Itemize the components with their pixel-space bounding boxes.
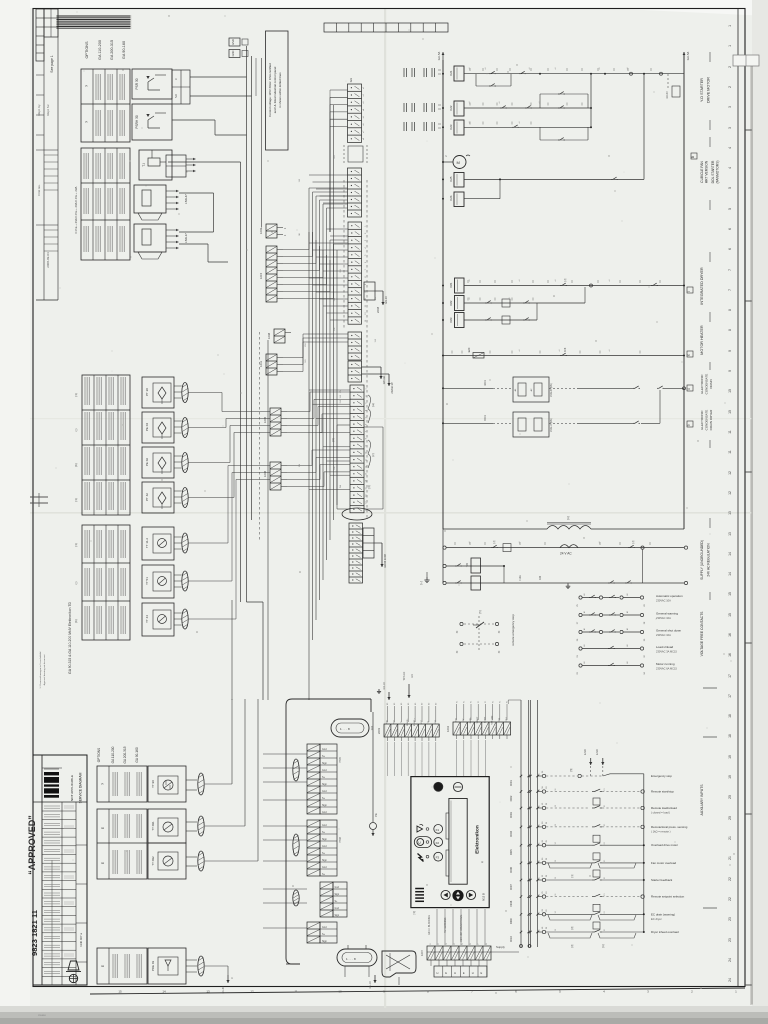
svg-text:[J]: [J] [632,540,635,543]
CT symbols drive motor feeders [403,68,405,77]
svg-text:GU-5A: GU-5A [686,52,690,61]
svg-text:I: I [687,291,691,292]
svg-text:K22: K22 [449,105,453,110]
svg-text:Elektronikon: Elektronikon [475,825,480,854]
wire gnd bus down 2 [251,56,253,520]
2X03 pin risers and labels [387,706,389,722]
svg-text:2X0: 2X0 [334,298,336,301]
svg-text:23: 23 [728,938,732,942]
svg-text:2D/GD W: 2D/GD W [390,382,394,394]
svg-text:K0: K0 [429,703,431,705]
svg-text:DRAIN: DRAIN [709,379,713,388]
left terminal strip group 7P05 [307,744,320,814]
pressure transducer PE 04 box [142,412,174,443]
svg-text:17: 17 [728,694,732,698]
svg-text:L5AL47: L5AL47 [184,194,188,204]
svg-text:GU-5A: GU-5A [437,52,441,61]
svg-text:F10E: F10E [519,575,522,581]
svg-text:[x]: [x] [566,516,570,519]
dryer contactor row A [442,285,444,287]
svg-text:3: 3 [728,106,732,108]
svg-text:a1: a1 [599,68,601,70]
cable oval PT 20 [182,383,188,403]
svg-text:14: 14 [366,480,368,482]
svg-text:a1: a1 [599,542,601,544]
svg-text:5: 5 [366,417,368,418]
wire strip E arrows right [362,366,382,368]
svg-text:5: 5 [728,208,732,210]
1X02 pin risers and labels [456,704,458,720]
contactor K25 row [442,178,444,180]
paper fold crease horizontal [30,512,752,514]
oval cable marker below strip F [342,508,372,520]
svg-text:ELECTRONIC: ELECTRONIC [700,410,704,430]
aux overload loop DI10 a [548,933,592,938]
svg-text:E: E [101,965,105,967]
atlas copco logo [44,772,59,775]
contactor K22 row [442,107,444,109]
arrow WH-GD above 1X02 [408,684,410,698]
24V regulation row 1 [443,564,446,567]
fold mark left margin [30,496,48,498]
svg-text:Sign: Sign [335,915,340,917]
svg-text:L5AL17: L5AL17 [184,233,188,243]
svg-text:a1: a1 [485,68,487,70]
svg-text:( closed = load ): ( closed = load ) [651,811,670,815]
svg-text:PE 02: PE 02 [145,458,149,467]
svg-text:A2: A2 [626,611,629,613]
power section left rail [442,60,444,529]
svg-text:A2: A2 [626,628,629,630]
power row label ticks row2 [469,103,471,106]
terminal GND lower [229,50,240,58]
svg-text:U. Kennzeichnungen im Umschalt: U. Kennzeichnungen im Umschaltbild [39,651,42,688]
svg-text:F1: F1 [436,828,440,832]
svg-text:UNLOAD: UNLOAD [491,715,494,724]
cable oval TT90 [198,773,204,795]
svg-text:3: 3 [728,127,732,129]
svg-text:K0: K0 [422,703,424,705]
svg-text:a1: a1 [469,280,471,282]
svg-text:H: H [437,971,439,975]
voltage free contact row General warning [579,613,582,616]
svg-text:M: M [457,160,460,165]
terminal strip G [349,523,363,583]
svg-text:TT 90: TT 90 [151,780,155,788]
heater row label ticks [451,351,453,354]
svg-text:remote emergency stop: remote emergency stop [511,614,515,646]
cable oval TT09I [198,816,204,836]
svg-text:a3: a3 [363,102,365,104]
svg-text:PT 20: PT 20 [145,388,149,396]
svg-text:7: 7 [728,269,732,271]
svg-text:a1: a1 [519,542,521,544]
svg-text:24: 24 [728,978,732,982]
svg-text:SERVICE DIAGRAM: SERVICE DIAGRAM [79,772,83,803]
elektronikon power LED [434,782,443,791]
svg-text:a1: a1 [529,68,531,70]
svg-text:DI09: DI09 [509,918,513,924]
svg-text:Gnd: Gnd [322,769,327,772]
svg-text:Y1: Y1 [485,701,487,703]
L5AL47 terminal stubs [166,190,176,192]
group1 right cells with Gnd S+ Sign labels [320,744,337,814]
svg-text:16: 16 [366,494,368,496]
long verticals to lower section [231,600,233,700]
svg-text:E1: E1 [604,824,606,826]
svg-text:11: 11 [366,459,368,461]
svg-text:DI01: DI01 [509,780,513,786]
pressure transducer PE 02 box [142,447,174,478]
aux overload loop DI09 a [548,915,592,920]
svg-text:PSR 30: PSR 30 [135,78,139,89]
remote emergency stop dashed box [460,622,463,625]
bottom border zone numbers [118,990,737,994]
bell symbol [68,961,79,970]
svg-text:K08: K08 [564,347,567,352]
top centre revision boxes row [324,23,448,32]
svg-text:TT 51: TT 51 [145,577,149,585]
title block row lines [42,767,62,769]
svg-text:Dryer infeed overload: Dryer infeed overload [651,930,679,934]
svg-text:230VAC 10A: 230VAC 10A [656,616,671,620]
filter option table PDT [97,948,147,984]
1X15 pin stubs [277,249,283,251]
svg-text:PSRH 30: PSRH 30 [135,115,139,129]
voltage free contact row Load-Unload [579,647,582,650]
svg-text:230VAC 10A: 230VAC 10A [656,633,671,637]
svg-text:DOL STARTER: DOL STARTER [711,160,715,183]
1X03 pin stubs [277,227,283,229]
K22 interlock branch row3 [539,127,541,140]
svg-text:CUBICLE FAN: CUBICLE FAN [700,161,704,183]
logo top small text [44,768,59,770]
left terminal strip group 4 [307,922,320,943]
GU-5A rail top stubs [442,52,444,60]
riser bend into aux rails [507,700,509,704]
svg-text:EC drain (warning): EC drain (warning) [651,912,675,916]
svg-text:56: 56 [555,805,557,807]
wire PDE03 right with arrow [205,965,228,967]
svg-text:14: 14 [162,990,166,994]
svg-text:C.P.E.+ 2VA C.P.E.+ 2VA C.: C.P.E.+ 2VA C.P.E.+ 2VA C.P.E.+ 2VA [74,186,78,233]
svg-text:E: E [101,862,105,864]
voltage free contact row Motor running [579,664,582,667]
button page left [441,890,450,899]
svg-text:HRT VERSION: HRT VERSION [705,160,709,183]
cable oval PE 02 [182,453,188,473]
svg-text:6: 6 [728,228,732,230]
svg-text:Sign: Sign [335,894,340,896]
arrow GD-10 above strips [388,692,390,700]
temp sensor TT 44 box [142,603,174,636]
svg-text:1X0: 1X0 [375,339,377,342]
svg-text:a1: a1 [469,350,471,352]
terminal strip 1X02 above elektronikon right [453,722,511,735]
svg-text:2X08: 2X08 [376,306,380,313]
svg-text:TT 11.2: TT 11.2 [145,538,149,548]
svg-text:Y1: Y1 [456,701,458,703]
dashed panel boundary around strips [343,180,345,330]
feeder wire to connector 1X03 [261,58,263,228]
svg-text:(FANMOTORS): (FANMOTORS) [716,160,720,183]
svg-text:a1: a1 [469,298,471,300]
svg-text:15: 15 [366,487,368,489]
ground sym above strips [378,689,380,691]
vertical link 24V right [642,549,644,583]
left margin column lines [57,9,59,300]
svg-text:a1: a1 [609,280,611,282]
paper fold crease vertical [384,8,386,1008]
svg-text:1W-GD: 1W-GD [382,376,386,385]
svg-text:Y1: Y1 [478,701,480,703]
terminal strip 1X0 C [348,222,362,324]
svg-text:22: 22 [728,897,732,901]
svg-text:TT 44: TT 44 [145,615,149,623]
cubicle rounded enclosure box [286,699,302,964]
svg-text:21: 21 [728,836,732,840]
svg-text:21: 21 [728,856,732,860]
svg-text:2: 2 [366,396,368,397]
svg-text:[5]: [5] [479,610,482,613]
left rail into 24V section [442,529,444,583]
title block right col micro text [64,805,74,807]
svg-text:[2]: [2] [571,944,574,947]
svg-text:PDE 03: PDE 03 [151,961,155,972]
pressure transducer PT 42 box [142,482,174,513]
svg-text:1X08: 1X08 [267,332,271,339]
svg-text:Control voltage: 115V 60Hz: CS: Control voltage: 115V 60Hz: CSA certifie… [268,63,272,117]
aux vertical rail 2 [537,700,539,947]
wires temp sensors to connector 1X06 [188,542,228,544]
svg-text:[E]: [E] [602,944,605,947]
svg-text:GU-K3: GU-K3 [667,91,669,99]
wire PSRH to bus [172,119,215,121]
elektronikon display window [449,799,467,885]
svg-text:crease: crease [38,1013,46,1017]
title block outer box [33,755,87,985]
svg-text:E/GD: E/GD [597,749,599,755]
pressure switch option table upper [81,69,130,142]
svg-text:and UL listed industrial contr: and UL listed industrial control panel [273,66,277,113]
svg-text:GA 200-315: GA 200-315 [110,40,114,60]
strip F left loop 3 [337,424,350,426]
terminal strip 2X03 above elektronikon [384,724,439,737]
svg-text:20: 20 [728,795,732,799]
transformer secondary 24VAC [560,545,578,548]
DIN connector shape bottom [382,951,416,977]
strip C side cells [364,282,375,300]
svg-text:L5AL17 (MV): L5AL17 (MV) [550,418,553,432]
valve T.I box [139,150,172,180]
svg-text:11: 11 [728,450,732,454]
svg-text:[4]: [4] [367,485,371,488]
power row label ticks row1 [469,68,471,71]
svg-text:56: 56 [555,929,557,931]
svg-text:A2: A2 [626,661,629,663]
voltage free contact row General shut down [579,630,582,633]
svg-text:4: 4 [728,147,732,149]
condensate drain unit L5AL17 [134,224,166,252]
section ref box 4 [687,385,693,391]
central vertical wire bundle [308,232,310,700]
extra weave wires strips B C [309,174,348,176]
function key F3 [434,852,443,861]
svg-text:9: 9 [366,445,368,446]
wires 2X03 pins to elektronikon top [387,742,389,776]
svg-text:1X15: 1X15 [259,272,263,279]
earth on 24V row [567,584,569,587]
svg-text:10: 10 [728,389,732,393]
svg-text:F3: F3 [436,856,440,860]
disclaimer text block [56,15,132,29]
svg-text:E1: E1 [604,877,606,879]
svg-text:10: 10 [366,452,368,454]
icon alarm lightning [418,854,424,862]
svg-text:1X0: 1X0 [375,297,377,300]
svg-text:18: 18 [728,734,732,738]
svg-text:CONDENSATE: CONDENSATE [705,410,709,431]
frame right inner line [737,9,739,987]
drain unit box EWD1 [513,377,549,402]
svg-text:H: H [454,971,456,975]
svg-text:T30: T30 [466,562,469,567]
svg-text:KEY NOT OPERATIONAL: KEY NOT OPERATIONAL [460,914,463,942]
svg-text:13: 13 [206,990,210,994]
T.I contact cells [166,155,186,177]
svg-text:VOLTAGE FREE CONTACTS: VOLTAGE FREE CONTACTS [700,611,704,657]
svg-text:19: 19 [728,775,732,779]
wires 1X05 1X06 to strip F [287,411,310,413]
svg-text:Y1: Y1 [492,701,494,703]
svg-text:Gnd: Gnd [335,887,340,889]
svg-text:15: 15 [728,592,732,596]
frame zone tick marks right edge [745,129,752,131]
svg-text:a1: a1 [559,350,561,352]
svg-text:TT 091: TT 091 [151,821,155,831]
svg-text:10: 10 [338,990,342,994]
svg-text:a1: a1 [539,102,541,104]
svg-text:12: 12 [250,990,254,994]
svg-text:Gnd: Gnd [335,908,340,910]
svg-text:GU-10: GU-10 [369,981,372,989]
svg-text:56: 56 [555,860,557,862]
svg-text:DI10: DI10 [509,936,513,942]
svg-text:a1: a1 [519,350,521,352]
svg-text:13: 13 [728,511,732,515]
svg-text:C: C [174,78,178,80]
temp sensor TT 09I box [148,809,186,843]
left terminal strip group 3 [320,882,333,917]
svg-text:1X0: 1X0 [299,179,301,182]
contactor K26 row [454,192,464,207]
svg-text:a4: a4 [363,109,365,111]
K24 parallel branch under K21 [475,74,477,86]
wires strips A B fanout left [330,89,348,91]
svg-text:8: 8 [728,329,732,331]
svg-text:16: 16 [728,653,732,657]
dryer row C [442,319,444,321]
1X07 strip pin wires down [430,960,432,966]
svg-text:E1: E1 [604,842,606,844]
svg-text:K0: K0 [415,703,417,705]
svg-text:GR/M 2X08: GR/M 2X08 [383,554,387,568]
section ref box B [691,153,697,159]
svg-text:1X05: 1X05 [263,416,267,423]
svg-text:Overload drive motor: Overload drive motor [651,843,678,847]
24v row label ticks [454,542,456,545]
svg-text:LOAD/: LOAD/ [483,716,486,723]
drain dryer unit box EWD2 [513,412,549,437]
svg-text:GA 90-315 & GA 110-200 MkIV El: GA 90-315 & GA 110-200 MkIV Elektronikon… [68,602,72,674]
svg-text:K0: K0 [401,703,403,705]
svg-text:START: START [476,716,479,723]
svg-text:INTEGRATED DRYER: INTEGRATED DRYER [700,267,704,305]
svg-text:24 V AC: 24 V AC [560,552,572,556]
svg-text:®: ® [482,861,485,863]
svg-text:K0: K0 [387,703,389,705]
svg-text:4X01: 4X01 [484,379,487,385]
svg-text:Load-Unload: Load-Unload [656,645,674,649]
svg-text:Y1: Y1 [500,701,502,703]
svg-text:AUXILIARY INPUTS: AUXILIARY INPUTS [700,784,704,816]
svg-text:2X03: 2X03 [377,727,381,734]
wire corner bottom-left bus [247,601,264,603]
24V supply row [443,546,446,549]
svg-text:15: 15 [118,990,122,994]
section ref box 9 [687,421,693,427]
svg-text:6: 6 [728,248,732,250]
contactor K21 row [442,73,444,75]
transformer T1 primary coil [547,526,591,530]
svg-text:16: 16 [728,633,732,637]
svg-text:WH-GD: WH-GD [403,672,406,681]
svg-text:7P08: 7P08 [339,836,342,842]
svg-text:GA 90-160: GA 90-160 [122,41,126,59]
connector block 1X03 [266,224,277,238]
aux rows left tick labels [538,774,540,777]
svg-text:(b): (b) [74,619,78,622]
svg-text:20: 20 [728,816,732,820]
svg-text:GD 10. BLOCKING: GD 10. BLOCKING [429,915,431,935]
svg-text:GU: GU [349,78,353,83]
wire oval connector bottom long [286,963,300,965]
svg-text:is shown within dotted lines: is shown within dotted lines [278,72,282,108]
svg-text:5: 5 [728,187,732,189]
left margin extra cells [36,74,44,76]
wires into strip groups from left [263,753,307,755]
svg-text:DRIVE MOTOR: DRIVE MOTOR [706,77,710,103]
svg-text:[5]: [5] [570,768,573,771]
svg-text:a5: a5 [363,116,365,118]
svg-text:[1]: [1] [571,874,574,877]
svg-text:K81: K81 [449,282,453,287]
svg-text:a1: a1 [469,542,471,544]
svg-text:Repl. for: Repl. for [46,104,50,115]
svg-text:A1: A1 [583,644,586,646]
svg-text:K83: K83 [449,317,453,322]
svg-text:2: 2 [728,86,732,88]
pressure transducer PT 20 box [142,377,174,408]
contactor K23 row [442,126,444,128]
wire PSR to bus [190,76,247,78]
svg-text:CONDENSATE: CONDENSATE [705,374,709,395]
svg-text:NO: NO [174,94,178,98]
wire strip G arrow [374,542,382,544]
oval connector 1X1 bottom [337,949,377,966]
frame bottom double line [90,988,745,994]
svg-text:230VAC 6A MC15: 230VAC 6A MC15 [656,667,677,671]
